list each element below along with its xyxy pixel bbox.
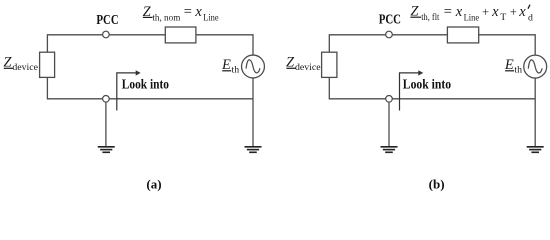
wire node to ground (a)	[105, 102, 107, 146]
svg-text:PCC: PCC	[379, 13, 401, 28]
label E_th (b)	[504, 57, 522, 76]
svg-text:=: =	[184, 4, 192, 20]
svg-text:Look into: Look into	[122, 77, 169, 92]
source E_th (a)	[242, 55, 265, 78]
label Look into (a)	[122, 77, 169, 92]
wire top-left segment (a)	[47, 35, 165, 52]
svg-text:(a): (a)	[146, 176, 161, 191]
ground left (b)	[381, 147, 398, 153]
wire node to ground (b)	[388, 102, 390, 146]
wire left-bottom segment (b)	[329, 77, 535, 98]
svg-text:(b): (b)	[429, 176, 445, 191]
svg-text:PCC: PCC	[96, 13, 118, 28]
svg-text:x: x	[455, 4, 463, 20]
impedance Z_th box (b)	[447, 27, 478, 43]
svg-text:x: x	[518, 4, 526, 20]
svg-text:th, flt: th, flt	[421, 12, 439, 23]
ground right (a)	[245, 147, 262, 153]
wire left-bottom segment (a)	[47, 77, 253, 98]
label (a)	[146, 176, 161, 191]
wire source to ground (b)	[534, 78, 536, 146]
ground left (a)	[98, 147, 115, 153]
label E_th (a)	[221, 57, 239, 76]
wire top-left segment (b)	[329, 35, 447, 52]
wire source to ground (a)	[252, 78, 254, 146]
label PCC (b)	[379, 13, 401, 28]
node bottom (a)	[103, 96, 110, 103]
source E_th (b)	[524, 55, 547, 78]
svg-text:=: =	[444, 4, 452, 20]
label Z_th,flt = x_Line + x_T + x_d' (b)	[410, 4, 533, 24]
svg-text:Line: Line	[203, 13, 219, 24]
svg-text:th: th	[232, 64, 240, 75]
label Look into (b)	[403, 77, 451, 92]
svg-text:d: d	[528, 12, 533, 23]
node bottom (b)	[386, 96, 393, 103]
impedance Z_th box (a)	[165, 27, 196, 43]
svg-text:Line: Line	[464, 12, 480, 23]
impedance Z_device box (b)	[322, 52, 337, 77]
svg-text:device: device	[295, 62, 321, 73]
svg-text:device: device	[12, 62, 38, 73]
node PCC (b)	[386, 31, 393, 38]
label Z_th,nom = x_Line (a)	[143, 4, 220, 24]
wire top-right segment (a)	[196, 35, 253, 55]
look-into arrow (a)	[117, 70, 141, 110]
svg-text:th: th	[514, 64, 522, 75]
label (b)	[429, 176, 445, 191]
label Z_device (b)	[286, 54, 321, 73]
label PCC (a)	[96, 13, 118, 28]
svg-text:x: x	[194, 4, 202, 20]
svg-text:T: T	[500, 12, 506, 23]
ground right (b)	[527, 147, 544, 153]
label Z_device (a)	[3, 54, 38, 73]
svg-text:th, nom: th, nom	[152, 13, 180, 24]
look-into arrow (b)	[400, 70, 424, 110]
svg-text:+: +	[482, 5, 489, 19]
wire top-right segment (b)	[479, 35, 536, 55]
impedance Z_device box (a)	[40, 52, 55, 77]
svg-text:+: +	[510, 5, 517, 19]
svg-text:x: x	[491, 4, 499, 20]
svg-text:Look into: Look into	[403, 77, 451, 92]
node PCC (a)	[103, 31, 110, 38]
